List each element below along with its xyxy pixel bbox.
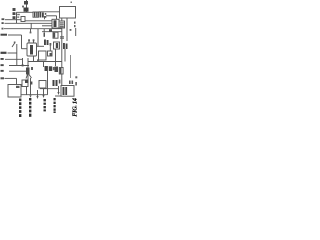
- wire into U11 left (y48.7): [22, 48, 28, 50]
- IC U11 (central component with dark core): [27, 39, 37, 56]
- wire vertical x43.5: [43, 62, 45, 68]
- wire vertical x28 center: [27, 58, 29, 80]
- node junction blob on bus: [49, 29, 52, 32]
- label 12 (tiny mark left of C11): [22, 6, 24, 8]
- wire vertical connector x31.2: [30, 23, 32, 28]
- node mark right of R14: [50, 43, 52, 46]
- wire vertical x22.5: [22, 58, 24, 66]
- node dot x70.5: [70, 29, 72, 31]
- tick marks on x62 (y37): [60, 37, 64, 38]
- node dot x38 y60: [37, 59, 39, 61]
- wire vertical into U13: [49, 46, 51, 52]
- resistor R13 (box with horizontal hatch, below U10): [59, 21, 65, 28]
- wire vertical x37.5 low with arrow: [36, 90, 38, 99]
- resistor R16 (dark cluster center-right low): [45, 66, 55, 71]
- wire vertical x33.5 stub: [33, 56, 35, 62]
- node dot on y65.5 line: [22, 64, 24, 66]
- pin label m with lead (y78.4): [1, 77, 17, 84]
- box U14 (bottom-left rectangle): [8, 85, 21, 98]
- pin label tick for bus y28.7: [2, 28, 4, 30]
- label 11 (above right of U16): [69, 81, 77, 86]
- wire vertical stub x30.5: [30, 29, 32, 33]
- wire vertical x75.7: [75, 28, 77, 36]
- resistor R10 (box with internal bars, top middle): [33, 12, 39, 17]
- transistor Q13 (bottom-center component): [22, 80, 28, 95]
- wire top bus y12: [17, 11, 34, 13]
- pin label 17 with lead (y19.5): [2, 18, 22, 20]
- block U10 (top-right box): [60, 7, 76, 19]
- node dot above U10: [71, 2, 73, 4]
- pin label b with lead (y23.3): [2, 22, 53, 24]
- wire vertical x21.5 down: [21, 35, 23, 49]
- resistor R17 (hatched blob right of U15): [53, 80, 61, 87]
- wire vertical x16.8 mid-left: [16, 44, 18, 66]
- rotated text column A: [19, 99, 21, 118]
- box U15 (bottom middle small): [39, 81, 46, 89]
- wire vertical stub x44.5 above R12: [44, 16, 46, 19]
- wire bus y61.5: [28, 61, 62, 63]
- label column right (tiny marks): [74, 22, 76, 28]
- capacitor C11 (dark component block): [24, 8, 29, 12]
- wire vertical x30.5 with node: [29, 78, 32, 98]
- pin label 18 with lead (y59.3): [1, 58, 23, 60]
- wire bus y88.7: [40, 88, 59, 90]
- transistor Q10 (left stack blobs): [13, 8, 20, 19]
- resistor R12 (box with dark core, right): [52, 19, 59, 28]
- wire vertical x16.5 joining buses: [16, 12, 18, 23]
- wire vertical right bus x62 upper: [61, 18, 63, 86]
- wire vertical top feed: [26, 0, 28, 12]
- resistor R14 (dark double bar above): [44, 40, 49, 46]
- pin label kTb with lead (y53): [1, 52, 17, 54]
- resistor R15 (dark double bar, right): [63, 43, 68, 49]
- pin label 19 with lead (y65.5): [1, 64, 30, 66]
- capacitor C13 (box with dark core, mid-right): [54, 42, 60, 49]
- wire vertical x47.5 low: [47, 71, 49, 95]
- svg-text:FIG. 14: FIG. 14: [73, 98, 79, 116]
- wire vertical x55.5: [55, 49, 57, 66]
- wire vertical x43.5 bottom with arrow: [42, 89, 44, 98]
- wire main bus y28.7: [4, 28, 62, 30]
- rotated text column D: [54, 98, 56, 113]
- wire vertical x70.5: [70, 55, 72, 78]
- capacitor C12 (box dark-left, below bus): [53, 32, 58, 38]
- wire bus y94.7: [21, 94, 48, 96]
- wire from N10 right: [25, 20, 52, 22]
- capacitor C14 (component on x56 line): [55, 67, 59, 73]
- box N10 (small box on line): [21, 17, 25, 22]
- resistor R11 (dark cluster right of R10): [40, 12, 44, 18]
- wire vertical x67: [66, 18, 68, 41]
- wire top bus to block: [39, 11, 60, 13]
- box U12 (lower-center rectangle): [39, 51, 47, 60]
- label inside U14: [16, 86, 20, 88]
- label 1 with lead: [44, 29, 46, 37]
- wire corner down x56.5: [56, 16, 58, 20]
- diode D10 (diagonal arrow): [12, 42, 16, 48]
- transistor Q11 (center-low dark component): [26, 67, 33, 79]
- label a (bottom right small): [75, 76, 77, 78]
- wire bus y31.7: [42, 31, 62, 33]
- wire vertical x65 short: [64, 49, 66, 62]
- wire from U11 right (y46.3): [37, 45, 45, 47]
- wire vertical x58.5 with arrow: [57, 86, 59, 95]
- wire y96 short: [55, 95, 61, 97]
- label 3 (tiny colon marks): [45, 13, 47, 18]
- box U16 (bottom-right with hatch): [61, 86, 74, 97]
- wire second top line: [46, 15, 57, 17]
- wire vertical x38 from bus: [37, 29, 39, 47]
- capacitor C10 (top small dark box): [24, 1, 28, 5]
- node mark at x30.5: [30, 32, 32, 34]
- pin label 125 with lead (y35): [1, 34, 22, 36]
- box U13 (small box right of U12): [48, 51, 53, 56]
- pin label 17b with lead (y71.2): [1, 70, 30, 72]
- rotated text column C: [44, 99, 46, 111]
- wire third lead into R12: [42, 25, 52, 27]
- rotated text column B: [29, 98, 31, 117]
- component Q12 (on right bus y67-74): [59, 68, 63, 75]
